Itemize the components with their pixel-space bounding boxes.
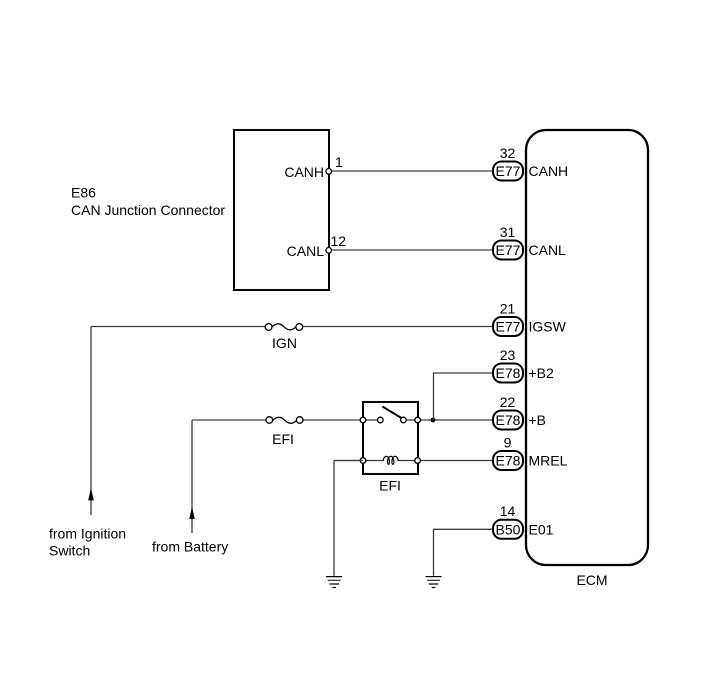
svg-text:+B: +B bbox=[529, 412, 547, 428]
svg-text:CAN Junction Connector: CAN Junction Connector bbox=[71, 202, 225, 218]
svg-text:CANH: CANH bbox=[529, 163, 569, 179]
svg-text:IGN: IGN bbox=[272, 335, 297, 351]
svg-text:IGSW: IGSW bbox=[529, 319, 567, 335]
svg-text:32: 32 bbox=[500, 145, 516, 161]
svg-text:14: 14 bbox=[500, 503, 516, 519]
svg-text:MREL: MREL bbox=[529, 453, 568, 469]
svg-text:ECM: ECM bbox=[576, 572, 607, 588]
svg-text:CANH: CANH bbox=[284, 164, 324, 180]
svg-text:EFI: EFI bbox=[379, 478, 401, 494]
svg-text:23: 23 bbox=[500, 347, 516, 363]
svg-text:from Ignition: from Ignition bbox=[49, 526, 126, 542]
svg-text:CANL: CANL bbox=[287, 243, 325, 259]
svg-text:B50: B50 bbox=[496, 521, 521, 537]
svg-text:22: 22 bbox=[500, 394, 516, 410]
svg-text:9: 9 bbox=[504, 435, 512, 451]
svg-text:21: 21 bbox=[500, 301, 516, 317]
svg-text:Switch: Switch bbox=[49, 543, 90, 559]
svg-text:E77: E77 bbox=[496, 319, 521, 335]
svg-text:E77: E77 bbox=[496, 242, 521, 258]
svg-text:CANL: CANL bbox=[529, 242, 567, 258]
svg-text:+B2: +B2 bbox=[529, 365, 555, 381]
svg-text:E78: E78 bbox=[496, 365, 521, 381]
svg-text:1: 1 bbox=[335, 154, 343, 170]
svg-text:31: 31 bbox=[500, 224, 516, 240]
svg-text:12: 12 bbox=[331, 233, 347, 249]
svg-text:E01: E01 bbox=[529, 521, 554, 537]
svg-text:from Battery: from Battery bbox=[152, 539, 228, 555]
svg-text:E86: E86 bbox=[71, 185, 96, 201]
svg-text:E78: E78 bbox=[496, 412, 521, 428]
svg-text:EFI: EFI bbox=[272, 431, 294, 447]
svg-text:E78: E78 bbox=[496, 453, 521, 469]
svg-text:E77: E77 bbox=[496, 163, 521, 179]
